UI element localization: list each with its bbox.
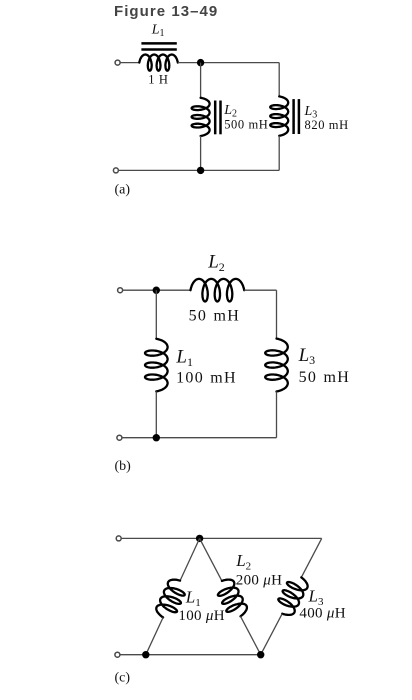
wire lead apex to L2 (c) — [200, 538, 222, 581]
wire bottom (b) — [122, 437, 277, 439]
wire L2 to bottom-right node (c) — [241, 616, 261, 654]
wire lead corner to L3 (c) — [301, 538, 321, 577]
wire right branch lower (b) — [276, 392, 278, 438]
wire right branch lower (a) — [278, 136, 280, 171]
wire top lead (b) — [122, 289, 190, 291]
svg-text:200 μH: 200 μH — [236, 572, 282, 588]
core bars L1 (a) — [141, 42, 176, 45]
core bars L3 (a) — [292, 99, 295, 134]
inductor L3 coil (b) — [265, 339, 288, 392]
terminal top-left (c) — [116, 536, 121, 541]
svg-text:L1: L1 — [175, 347, 193, 369]
wire lead apex to L1 (c) — [180, 538, 200, 580]
svg-text:(c): (c) — [115, 670, 131, 685]
svg-text:100 mH: 100 mH — [176, 369, 237, 386]
wire left branch upper (b) — [155, 290, 157, 339]
node junction bottom (b) — [153, 434, 160, 441]
svg-text:L2: L2 — [235, 551, 251, 572]
svg-text:L1: L1 — [185, 588, 201, 609]
node bottom-right (c) — [257, 651, 264, 658]
svg-text:500 mH: 500 mH — [224, 117, 268, 131]
wire top-left lead (a) — [120, 62, 139, 64]
node apex (c) — [196, 535, 203, 542]
node bottom-left (c) — [142, 651, 149, 658]
terminal bottom-left (b) — [117, 435, 122, 440]
wire L1 to bottom-left node (c) — [146, 617, 163, 654]
wire middle branch lower (a) — [200, 136, 202, 170]
terminal top-left (b) — [118, 288, 123, 293]
inductor L3 coil (c) — [278, 577, 307, 615]
node junction bottom (a) — [197, 167, 204, 174]
svg-text:1 H: 1 H — [148, 72, 168, 86]
svg-text:Figure 13–49: Figure 13–49 — [114, 3, 218, 20]
inductor L2 coil (b) — [191, 279, 245, 302]
node junction top (b) — [153, 287, 160, 294]
inductor L1 coil (b) — [145, 339, 168, 392]
inductor L1 coil (a) — [139, 55, 178, 71]
wire L3 to bottom-right node (c) — [261, 614, 283, 655]
wire junction to corner (a) — [201, 62, 280, 64]
svg-text:50 mH: 50 mH — [189, 308, 241, 325]
inductor L2 coil (a) — [192, 98, 210, 136]
inductor L2 coil (c) — [218, 580, 247, 617]
terminal bottom-left (c) — [115, 652, 120, 657]
svg-text:L2: L2 — [207, 252, 225, 274]
core bars L2 (a) — [214, 101, 217, 135]
wire right branch upper (a) — [278, 63, 280, 97]
svg-text:L3: L3 — [298, 345, 316, 367]
svg-text:50 mH: 50 mH — [299, 369, 351, 386]
wire bottom (c) — [120, 654, 261, 656]
wire left branch lower (b) — [155, 391, 157, 437]
wire top (c) — [121, 537, 322, 539]
svg-text:100 μH: 100 μH — [178, 608, 224, 624]
inductor L3 coil (a) — [270, 96, 288, 135]
svg-text:(a): (a) — [115, 183, 131, 198]
node junction top (a) — [197, 59, 204, 66]
wire right branch upper (b) — [276, 290, 278, 338]
wire L1 to junction (a) — [178, 62, 201, 64]
terminal top-left (a) — [115, 60, 120, 65]
wire middle branch upper (a) — [200, 63, 202, 98]
terminal bottom-left (a) — [113, 168, 118, 173]
svg-text:400 μH: 400 μH — [299, 606, 345, 622]
wire L2 to corner (b) — [244, 289, 276, 291]
svg-text:L1: L1 — [151, 23, 165, 40]
svg-text:(b): (b) — [115, 459, 132, 474]
wire bottom (a) — [118, 169, 279, 171]
inductor L1 coil (c) — [156, 580, 184, 618]
svg-text:820 mH: 820 mH — [305, 118, 349, 132]
